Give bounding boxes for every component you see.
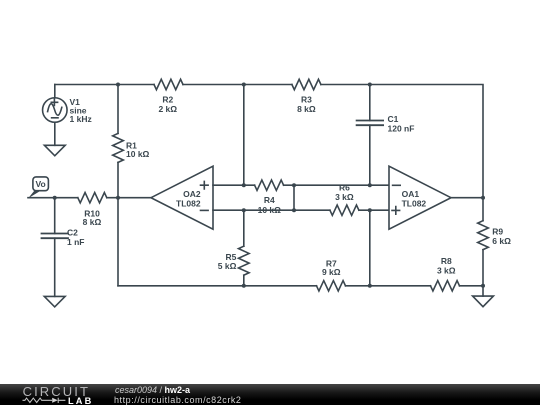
svg-text:10 kΩ: 10 kΩ xyxy=(126,149,150,159)
resistor R9 xyxy=(478,221,489,250)
svg-text:C2: C2 xyxy=(67,228,78,238)
wire xyxy=(54,198,56,234)
label OA1 xyxy=(402,189,427,208)
label R1 xyxy=(126,140,150,159)
node junction dots xyxy=(53,83,485,288)
wire xyxy=(117,162,119,197)
wire xyxy=(369,210,371,286)
resistor R10 xyxy=(78,193,107,203)
label V1 xyxy=(70,97,92,124)
resistor R1 xyxy=(113,133,124,162)
label C2 xyxy=(67,228,84,248)
wire xyxy=(482,286,484,296)
wire xyxy=(359,209,389,211)
svg-text:R4: R4 xyxy=(264,195,275,205)
label R4 xyxy=(258,195,282,215)
label R7 xyxy=(322,259,341,277)
svg-text:1 kHz: 1 kHz xyxy=(70,114,92,124)
svg-text:TL082: TL082 xyxy=(402,198,427,208)
wire xyxy=(117,198,119,286)
label R3 xyxy=(297,95,316,115)
wire xyxy=(107,197,151,199)
resistor R6 xyxy=(330,205,359,215)
wire xyxy=(213,184,255,186)
wire xyxy=(243,210,245,246)
resistor R4 xyxy=(255,180,284,190)
wire xyxy=(321,85,483,198)
wire xyxy=(55,84,154,86)
wire xyxy=(482,250,484,286)
label OA2 xyxy=(176,189,201,208)
label C1 xyxy=(388,114,415,133)
wire xyxy=(369,85,371,121)
svg-text:6 kΩ: 6 kΩ xyxy=(492,236,511,246)
wire xyxy=(482,198,484,221)
wire xyxy=(117,85,119,134)
label R5 xyxy=(218,252,237,271)
svg-text:1 nF: 1 nF xyxy=(67,237,84,247)
svg-text:R8: R8 xyxy=(441,256,452,266)
capacitor C1 xyxy=(357,121,384,126)
wire xyxy=(28,197,78,199)
wire xyxy=(451,197,483,199)
resistor R7 xyxy=(317,281,346,291)
capacitor C2 xyxy=(42,234,69,239)
label R8 xyxy=(437,256,456,276)
ground xyxy=(473,296,494,307)
svg-text:5 kΩ: 5 kΩ xyxy=(218,261,237,271)
footer bar xyxy=(0,384,540,405)
ground xyxy=(44,296,65,307)
svg-text:9 kΩ: 9 kΩ xyxy=(322,267,341,277)
svg-text:Vo: Vo xyxy=(35,179,45,189)
label R10 xyxy=(83,208,102,227)
svg-text:R2: R2 xyxy=(162,95,173,105)
svg-text:8 kΩ: 8 kΩ xyxy=(83,217,102,227)
wire xyxy=(293,185,295,210)
wire xyxy=(369,125,371,185)
svg-text:120 nF: 120 nF xyxy=(388,123,415,133)
label R6 xyxy=(335,183,354,202)
ground xyxy=(44,145,65,156)
wire xyxy=(118,285,317,287)
CircuitLab logo xyxy=(23,384,90,399)
svg-text:3 kΩ: 3 kΩ xyxy=(437,266,456,276)
resistor R5 xyxy=(239,246,250,275)
wire xyxy=(346,285,431,287)
svg-text:10 kΩ: 10 kΩ xyxy=(258,205,282,215)
resistor R8 xyxy=(431,281,460,291)
label R2 xyxy=(158,95,177,115)
wire xyxy=(213,209,330,211)
label R9 xyxy=(492,227,511,246)
svg-text:TL082: TL082 xyxy=(176,198,201,208)
op-amp OA2 xyxy=(151,166,213,229)
wire xyxy=(284,184,389,186)
wire xyxy=(54,238,56,296)
wire xyxy=(243,85,245,186)
voltage source V1 xyxy=(43,85,68,146)
resistor R2 xyxy=(154,79,183,89)
svg-text:R3: R3 xyxy=(301,95,312,105)
node Vo flag xyxy=(28,177,48,198)
wire xyxy=(243,275,245,286)
resistor R3 xyxy=(292,79,321,89)
op-amp OA1 xyxy=(389,166,451,229)
wire xyxy=(460,285,484,287)
svg-text:3 kΩ: 3 kΩ xyxy=(335,192,354,202)
svg-text:8 kΩ: 8 kΩ xyxy=(297,104,316,114)
svg-text:2 kΩ: 2 kΩ xyxy=(158,104,177,114)
wire xyxy=(183,84,292,86)
